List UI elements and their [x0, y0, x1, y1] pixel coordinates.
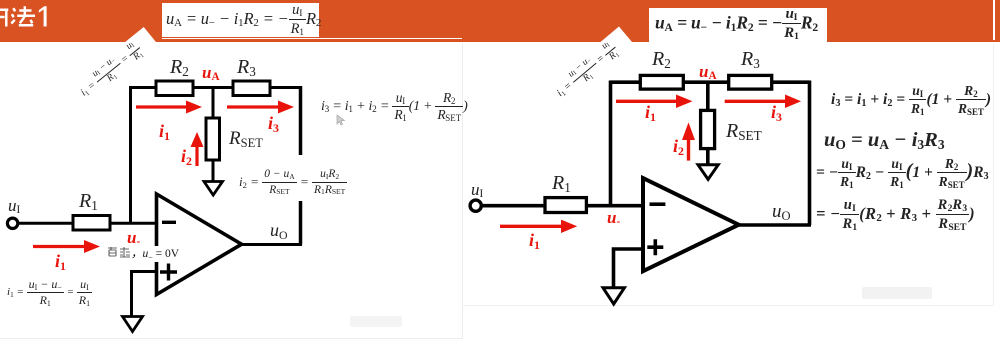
- partial 断 char: [0, 10, 8, 27]
- red current arrow i1 top (left): [136, 101, 202, 114]
- label R2 (right): [652, 48, 671, 71]
- digit 1 of title: [39, 6, 47, 26]
- formula = -uI/R1 R2 - uI/R1(1+R2/RSET)R3 (right slide): [816, 155, 989, 188]
- label RSET (right): [726, 120, 762, 143]
- formula i2 = (0-uA)/RSET = uIR2/R1RSET (left slide): [239, 167, 347, 196]
- faint seam line right edge: [993, 0, 995, 40]
- formula uA = u- - i1R2 = -uI/R1 R2 (left box): [166, 3, 318, 34]
- ground under RSET (left): [204, 182, 223, 196]
- tilted formula i1=(uI-u-)/R1=uI/R1 (left slide): [61, 27, 162, 117]
- ground under op-amp plus input (left): [123, 317, 143, 332]
- title block (left orange block, taller): [0, 0, 162, 42]
- small gray cursor artifact (left slide): [337, 115, 345, 125]
- resistor R2 (left): [156, 81, 193, 96]
- label u- red (left): [127, 228, 140, 248]
- orange header bar right slide (taller): [462, 0, 1000, 42]
- label i1 red top (left): [159, 121, 170, 142]
- white formula box right: [649, 8, 827, 42]
- formula i3 = i1+i2 = uI/R1(1+R2/RSET) (right slide): [831, 83, 991, 117]
- label u1 input (right): [471, 180, 483, 200]
- label i1 red input (left): [55, 251, 66, 272]
- resistor RSET (left): [206, 118, 220, 160]
- faint seam line between slides: [462, 44, 463, 338]
- label u1 input (left): [8, 196, 20, 216]
- thin orange underline below bar: [162, 39, 1000, 42]
- label i3 red top (left): [268, 113, 279, 134]
- label node uA red (left): [202, 63, 220, 83]
- wire left feedback vertical: [129, 86, 132, 223]
- op-amp plus sign (right): [647, 239, 663, 255]
- 法 char: [11, 8, 15, 23]
- resistor R2 (right): [640, 75, 683, 89]
- input terminal circle u1 (right): [470, 200, 481, 211]
- label node uA red (right): [699, 62, 717, 82]
- resistor RSET (right): [701, 110, 715, 148]
- label R3 (right): [741, 48, 760, 71]
- wire top horizontal (left circuit): [131, 86, 301, 89]
- wire output horizontal (right): [738, 223, 811, 227]
- label i1 red top (right): [645, 102, 656, 123]
- ground under op-amp plus input (right): [603, 288, 624, 304]
- input terminal circle u1 (left): [7, 218, 17, 228]
- faint watermark right slide: [862, 287, 932, 299]
- wire RSET stub bottom: [212, 160, 215, 182]
- faint bottom edge right slide: [462, 305, 994, 306]
- wire left feedback vertical (right): [609, 81, 613, 206]
- red current arrow i1 input (right): [500, 220, 577, 233]
- label i2 red (left): [181, 146, 192, 167]
- label uO (left): [270, 220, 288, 241]
- wire right output vertical (right): [808, 81, 812, 226]
- label R1 (left): [79, 190, 98, 213]
- red current arrow i2 vertical (left): [191, 132, 204, 166]
- formula i3 = i1+i2 = uI/R1(1+R2/RSET) (left slide): [321, 91, 468, 122]
- op-amp plus sign (left): [160, 264, 177, 281]
- white formula box left: [162, 3, 319, 37]
- op-amp U2 triangle (right): [643, 178, 739, 271]
- label R1 (right): [552, 172, 571, 195]
- title 断法1 (partially clipped CJK drawn as SVG strokes): [0, 0, 60, 34]
- wire RSET stub top: [212, 88, 215, 119]
- resistor R1 (left): [73, 216, 110, 231]
- red current arrow i3 top (left): [227, 101, 294, 114]
- faint seam below right edge: [993, 44, 994, 305]
- resistor R3 (left): [233, 81, 270, 96]
- label virtual short text (left): [107, 246, 192, 262]
- op-amp minus sign (right): [650, 202, 666, 206]
- formula uA = u- - i1R2 = -uI/R1 R2 (right box): [655, 7, 827, 38]
- wire input horizontal (right): [481, 204, 643, 208]
- wire top horizontal (right circuit): [611, 80, 810, 84]
- wire input horizontal: [18, 222, 157, 225]
- ground under RSET (right): [698, 165, 718, 180]
- wire noninverting to ground (right): [614, 249, 644, 288]
- formula uO = uA - i3R3 (right slide): [824, 129, 945, 152]
- formula i1 = (uI-u-)/R1 = uI/R1 (left slide bottom): [7, 277, 92, 307]
- wire RSET stub top (right): [706, 82, 710, 110]
- resistor R3 (right): [729, 75, 772, 89]
- op-amp minus sign (left): [162, 221, 176, 224]
- label u- red (right): [607, 208, 620, 228]
- faint bottom edge left slide: [0, 338, 463, 339]
- formula = -uI/R1(R2+R3+R2R3/RSET) (right slide): [816, 195, 975, 233]
- label i2 red (right): [673, 136, 684, 157]
- wire right output vertical: [299, 86, 303, 245]
- label R3 (left): [237, 56, 256, 79]
- white backing of i2 formula (hides wire): [236, 155, 370, 201]
- faint watermark left slide: [350, 316, 402, 327]
- label i1 red input (right): [529, 230, 540, 251]
- wire noninverting to ground: [132, 272, 157, 318]
- tilted formula i1=(uI-u-)/R1=uI/R1 (right slide): [538, 26, 638, 117]
- orange header bar: [0, 0, 1000, 38]
- wire RSET stub bottom (right): [706, 149, 710, 165]
- op-amp U1 triangle (left): [157, 194, 242, 295]
- label i3 red top (right): [771, 102, 782, 123]
- wire output horizontal: [241, 243, 302, 246]
- label uO (right): [772, 201, 791, 223]
- red current arrow i1 input (left): [33, 240, 100, 253]
- red current arrow i1 top (right): [616, 95, 693, 109]
- label R2 (left): [170, 56, 189, 79]
- red current arrow i3 top (right): [725, 95, 801, 109]
- red current arrow i2 vertical (right): [682, 122, 695, 160]
- resistor R1 (right): [545, 198, 586, 213]
- label RSET (left): [229, 128, 263, 150]
